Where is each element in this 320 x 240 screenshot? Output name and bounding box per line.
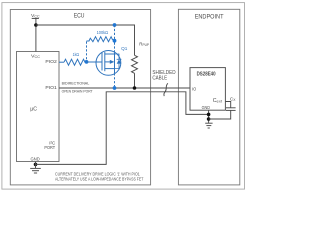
transistor Q1 p-channel MOSFET xyxy=(96,46,128,75)
wire PIO2 to R2 xyxy=(59,61,64,63)
ground endpoint xyxy=(205,123,212,128)
wire gate to Q1 xyxy=(87,61,103,63)
wire dashed source to Vcc rail xyxy=(114,25,116,40)
note current delivery drive logic xyxy=(55,172,144,182)
svg-text:OPEN DRAIN PORT: OPEN DRAIN PORT xyxy=(62,89,93,94)
label bidirectional open drain port xyxy=(62,81,93,94)
svg-text:GND: GND xyxy=(31,157,41,162)
wire CEXT pin to Cx xyxy=(225,102,230,108)
ECU block xyxy=(10,10,150,185)
ground ECU xyxy=(30,168,41,173)
wire GND return (ECU to endpoint) xyxy=(36,92,209,165)
wire µC GND pin xyxy=(35,162,37,169)
wire Vcc rail to Rpup xyxy=(36,25,135,55)
capacitor Cx xyxy=(226,96,236,110)
node ECU GND junction xyxy=(34,163,38,167)
node Q1 drain / IO junction xyxy=(113,86,117,90)
node Vcc rail junction xyxy=(34,23,38,27)
wire Vcc to µC xyxy=(35,18,37,51)
node gate junction xyxy=(85,60,89,64)
Vcc supply symbol xyxy=(31,13,40,19)
svg-text:BIDIRECTIONAL: BIDIRECTIONAL xyxy=(62,81,90,86)
svg-text:IO: IO xyxy=(192,87,197,92)
svg-text:RPUP: RPUP xyxy=(139,42,149,48)
svg-text:PIO1: PIO1 xyxy=(45,85,57,91)
shielded cable crossing marks xyxy=(164,83,168,96)
node Rpup / IO junction xyxy=(133,86,137,90)
svg-text:DS28E40: DS28E40 xyxy=(197,72,216,78)
svg-text:µC: µC xyxy=(30,106,37,112)
microcontroller µC block xyxy=(17,52,60,162)
svg-text:CX: CX xyxy=(230,96,236,102)
svg-text:VCC: VCC xyxy=(31,53,41,59)
svg-text:PIO2: PIO2 xyxy=(45,59,57,65)
wire Rpup to IO line xyxy=(134,73,136,88)
wire Cx to GND xyxy=(209,110,231,119)
wire DS28E40 GND pin xyxy=(208,110,210,123)
resistor Rpup xyxy=(132,42,150,74)
svg-text:1kΩ: 1kΩ xyxy=(73,52,79,57)
node R1 / source junction xyxy=(113,39,117,43)
svg-text:Q1: Q1 xyxy=(121,46,128,51)
svg-text:ENDPOINT: ENDPOINT xyxy=(195,14,224,21)
wire IO line (1-Wire bus) xyxy=(59,87,190,89)
svg-text:ECU: ECU xyxy=(74,13,85,20)
IC U1 DS28E40 xyxy=(190,68,225,111)
resistor R2 1kΩ xyxy=(64,52,87,65)
svg-text:GND: GND xyxy=(202,105,211,110)
svg-text:CABLE: CABLE xyxy=(152,76,167,82)
wire dashed drain to IO xyxy=(114,73,116,86)
resistor R1 100kΩ xyxy=(87,30,115,42)
wire dashed 100k to gate xyxy=(86,42,88,61)
node endpoint GND junction 2 xyxy=(207,117,211,121)
node Vcc rail tap xyxy=(113,23,117,27)
label SHIELDED CABLE xyxy=(152,70,175,82)
svg-text:Cext: Cext xyxy=(213,98,223,104)
ENDPOINT block xyxy=(178,9,239,185)
svg-text:PORT: PORT xyxy=(44,145,55,150)
svg-text:100kΩ: 100kΩ xyxy=(97,30,108,35)
svg-text:ALTERNATELY USE A LOW-IMPEDANC: ALTERNATELY USE A LOW-IMPEDANCE BYPASS F… xyxy=(55,177,144,182)
node endpoint GND junction 1 xyxy=(207,113,211,117)
